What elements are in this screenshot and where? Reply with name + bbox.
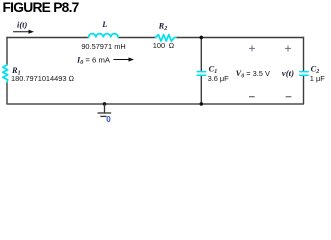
wire middle branch lower (200, 76, 202, 104)
svg-text:100 Ω: 100 Ω (153, 41, 175, 50)
polarity minus left (249, 96, 255, 98)
wire middle branch upper (200, 38, 202, 72)
wire top right of R2 to corner (176, 37, 304, 39)
capacitor C2 (299, 72, 309, 76)
polarity plus right (285, 45, 291, 51)
wire left lower (6, 82, 8, 104)
wire top between L and R2 (118, 37, 156, 39)
inductor L (89, 34, 119, 38)
capacitor C1 (197, 72, 207, 76)
svg-text:3.6 μF: 3.6 μF (208, 74, 230, 83)
wire top left segment (6, 37, 88, 39)
wire right upper (303, 37, 305, 71)
polarity minus right (286, 96, 292, 98)
node junction bottom of C1 branch (200, 102, 204, 106)
resistor R2 (156, 35, 177, 42)
polarity plus left (249, 45, 255, 51)
svg-text:FIGURE P8.7: FIGURE P8.7 (3, 0, 80, 15)
svg-text:90.57971 mH: 90.57971 mH (81, 42, 125, 51)
svg-text:V0 = 3.5 V: V0 = 3.5 V (236, 69, 270, 80)
svg-text:i(t): i(t) (17, 21, 27, 30)
svg-text:1 μF: 1 μF (310, 74, 325, 83)
wire left upper (6, 37, 8, 66)
wire right lower (303, 76, 305, 104)
node junction ground (103, 102, 107, 106)
svg-text:180.7971014493 Ω: 180.7971014493 Ω (11, 74, 75, 83)
svg-text:L: L (101, 20, 107, 29)
arrow for I0 (114, 57, 135, 61)
arrow for i(t) (13, 30, 34, 34)
resistor R1 (3, 65, 8, 82)
svg-text:0: 0 (106, 115, 111, 124)
svg-text:v(t): v(t) (282, 68, 294, 78)
wire bottom (6, 103, 304, 105)
node junction top of C1 branch (200, 36, 204, 40)
ground (98, 104, 112, 116)
